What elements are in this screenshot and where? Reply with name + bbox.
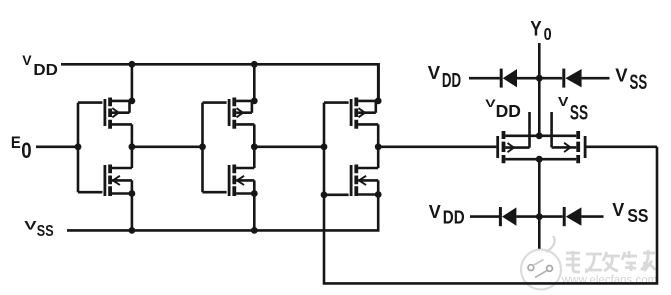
wire inv3 output to transmission gate bbox=[378, 146, 496, 149]
label VDD (bottom diode row) bbox=[429, 202, 465, 228]
svg-text:0: 0 bbox=[544, 25, 552, 45]
wire bbox=[581, 215, 603, 218]
wire inv2 output to inv3 bbox=[254, 146, 324, 149]
diode D2 (from VSS) bbox=[564, 69, 582, 88]
label VDD (TG body, left) bbox=[485, 97, 521, 121]
svg-text:V: V bbox=[612, 200, 624, 220]
svg-text:V: V bbox=[22, 52, 32, 68]
wire gate bus inv3 bbox=[324, 103, 349, 195]
svg-text:DD: DD bbox=[442, 68, 461, 92]
transistor M1 PMOS (inv1 top) bbox=[105, 64, 132, 147]
svg-text:SS: SS bbox=[570, 101, 588, 125]
node inv1 input bbox=[75, 143, 82, 150]
transistor M6 NMOS (inv3 bottom) bbox=[351, 147, 378, 196]
node bottom diode junction bbox=[536, 213, 543, 220]
node TG top rail / Y0 bbox=[536, 132, 543, 139]
svg-text:V: V bbox=[615, 64, 628, 85]
label VSS (top diode row) bbox=[615, 64, 647, 94]
node inv3 output bbox=[375, 143, 382, 150]
node inv3 input bbox=[321, 143, 328, 150]
node TG bottom rail bbox=[536, 156, 543, 163]
VSS rail bbox=[67, 195, 378, 231]
svg-text:SS: SS bbox=[37, 223, 54, 241]
svg-text:0: 0 bbox=[21, 140, 31, 164]
wire TG top rail bbox=[505, 135, 576, 138]
svg-text:SS: SS bbox=[627, 206, 648, 226]
wire bbox=[470, 215, 499, 218]
node inv1 output bbox=[129, 143, 136, 150]
wire gate bus inv1 bbox=[78, 103, 102, 193]
label VSS (bottom-left rail) bbox=[24, 219, 53, 240]
label E0 (input) bbox=[11, 134, 32, 163]
node inv1 NMOS source/body bbox=[129, 190, 136, 197]
label VDD (top diode row) bbox=[428, 62, 461, 92]
svg-text:DD: DD bbox=[443, 207, 465, 228]
wire TG output to loop bbox=[586, 146, 657, 149]
node inv1 VDD junction bbox=[129, 61, 136, 68]
node inv3 PMOS source/body bbox=[375, 98, 382, 105]
node inv2 PMOS source/body bbox=[251, 98, 258, 105]
transistor Q2 (TG right, N-channel) bbox=[552, 112, 586, 163]
node inv3 NMOS source/body bbox=[375, 191, 382, 198]
svg-text:Y: Y bbox=[530, 18, 542, 41]
transistor M2 NMOS (inv1 bottom) bbox=[105, 147, 132, 231]
svg-text:V: V bbox=[485, 97, 496, 109]
svg-text:V: V bbox=[428, 62, 441, 83]
wire complement loop (inv2 output around bottom to right TG gate) bbox=[324, 147, 657, 284]
wire E0 input bbox=[36, 146, 78, 149]
watermark text 电子发烧友 (approx strokes) bbox=[567, 251, 656, 273]
wire bottom center vertical bbox=[538, 159, 541, 249]
transistor M5 PMOS (inv3 top) bbox=[351, 64, 378, 147]
diode D4 (from VSS) bbox=[564, 207, 581, 226]
diode D1 (to VDD) bbox=[501, 69, 517, 88]
node inv2 NMOS source/body bbox=[251, 190, 258, 197]
wire inv1 output to inv2 bbox=[132, 146, 203, 149]
node inv2 VDD junction bbox=[251, 61, 258, 68]
node inv3 gate/loop junction bbox=[321, 191, 328, 198]
diode D3 (to VDD) bbox=[500, 207, 516, 226]
label VSS (TG body, right) bbox=[558, 96, 588, 125]
svg-text:V: V bbox=[429, 202, 441, 222]
VDD rail bbox=[61, 64, 379, 101]
label Y0 bbox=[530, 18, 551, 45]
transistor Q1 (TG left, P-channel) bbox=[498, 112, 530, 163]
wire Y0 vertical bbox=[538, 43, 541, 136]
svg-text:V: V bbox=[558, 96, 569, 110]
node Y0/diode junction top bbox=[536, 75, 543, 82]
node inv1 PMOS source/body bbox=[129, 98, 136, 105]
node inv2 output bbox=[251, 143, 258, 150]
svg-text:DD: DD bbox=[33, 61, 58, 78]
node inv1 VSS junction bbox=[129, 227, 136, 234]
transistor M4 NMOS (inv2 bottom) bbox=[229, 147, 254, 231]
wire TG bottom rail bbox=[505, 158, 576, 161]
wire bbox=[517, 77, 562, 80]
transistor M3 PMOS (inv2 top) bbox=[229, 64, 254, 147]
svg-text:V: V bbox=[24, 219, 37, 232]
label VSS (bottom diode row) bbox=[612, 200, 648, 226]
svg-text:www.elecfans.com: www.elecfans.com bbox=[561, 275, 657, 287]
node inv2 VSS junction bbox=[251, 227, 258, 234]
svg-text:DD: DD bbox=[496, 101, 521, 121]
wire gate bus inv2 bbox=[203, 103, 227, 193]
watermark logo circle bbox=[521, 236, 561, 290]
node inv2 input bbox=[199, 143, 206, 150]
label VDD (top-left rail) bbox=[22, 52, 58, 79]
svg-text:SS: SS bbox=[630, 70, 648, 94]
svg-text:E: E bbox=[11, 134, 21, 152]
wire bbox=[582, 77, 610, 80]
wire bbox=[516, 215, 562, 218]
wire bbox=[469, 77, 500, 80]
